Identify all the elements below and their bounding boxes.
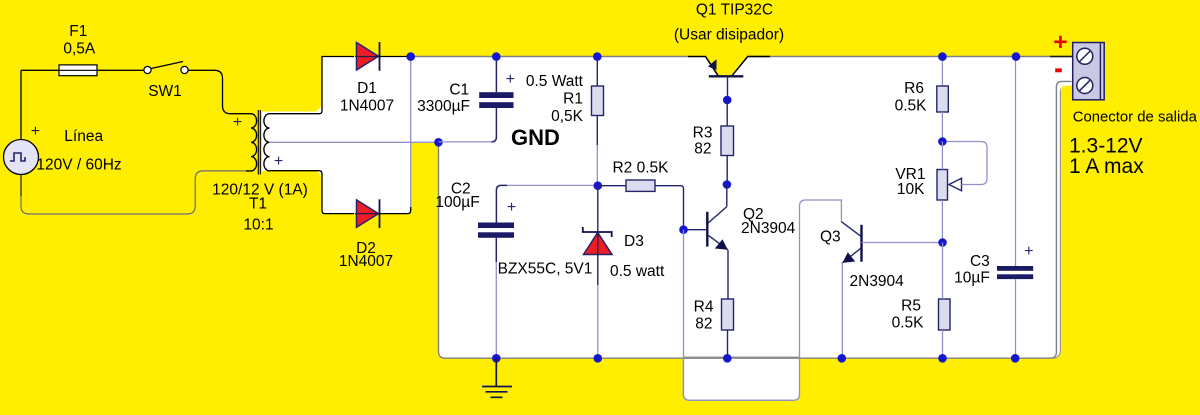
svg-text:0,5K: 0,5K [551, 108, 584, 125]
svg-text:GND: GND [511, 125, 560, 150]
svg-text:1 A max: 1 A max [1069, 155, 1144, 178]
resistor R3 [726, 100, 728, 126]
svg-text:3300µF: 3300µF [417, 98, 470, 115]
svg-text:(Usar disipador): (Usar disipador) [674, 27, 784, 44]
AC source waveform symbol [10, 153, 25, 161]
node: Q3 emitter on rail [838, 354, 847, 363]
svg-text:1N4007: 1N4007 [339, 253, 393, 270]
svg-text:+: + [507, 199, 516, 216]
svg-text:R4: R4 [694, 299, 714, 316]
background panel: D2 pocket [322, 142, 411, 213]
svg-text:1N4007: 1N4007 [340, 98, 394, 115]
node: C1 top on rail [492, 52, 501, 61]
node: center tap / ground net [434, 138, 443, 147]
wire: top positive rail (gray) [411, 56, 1072, 58]
background panel: bottom bulge (Q3 collector detour) [683, 357, 799, 400]
switch SW1 [144, 66, 151, 73]
svg-text:2N3904: 2N3904 [741, 220, 796, 237]
svg-text:R6: R6 [904, 80, 924, 97]
wire: bottom ground rail (gray) [439, 81, 1072, 358]
node: R6 top on rail [938, 52, 947, 61]
svg-text:R5: R5 [901, 298, 921, 315]
svg-text:+: + [31, 123, 40, 140]
background panel: connector notch [1059, 57, 1073, 86]
AC source V1 circle [4, 140, 39, 175]
svg-text:R1: R1 [563, 90, 583, 107]
svg-text:Conector de salida: Conector de salida [1073, 110, 1198, 126]
capacitor C2 [496, 185, 507, 222]
svg-text:D3: D3 [624, 233, 644, 250]
resistor R2 [598, 185, 626, 187]
node: R4 bottom on rail [723, 354, 732, 363]
svg-text:+: + [274, 153, 283, 170]
resistor R1 [596, 57, 598, 87]
label minus terminal [1055, 68, 1062, 72]
fuse F1 [59, 65, 97, 76]
transistor Q1 (TIP32C PNP) [688, 57, 770, 77]
svg-text:10K: 10K [897, 181, 925, 198]
transformer T1 secondary winding [264, 114, 273, 171]
wire: D2 cathode to riser [380, 207, 411, 214]
svg-text:0.5 Watt: 0.5 Watt [526, 73, 584, 90]
resistor R4 [722, 299, 734, 330]
wire: rail stub into connector [1050, 56, 1073, 58]
svg-text:+: + [506, 71, 515, 88]
svg-text:+: + [1053, 29, 1067, 56]
potentiometer VR1 [937, 170, 948, 201]
ground symbol [482, 358, 512, 397]
background fillet near D2 wire corner [316, 171, 323, 179]
transistor Q2 (2N3904 NPN) [726, 185, 728, 207]
wire: AC source top to fuse [21, 70, 59, 139]
node: Q2 base junction [679, 225, 688, 234]
node: R1/R2/D3 junction [594, 181, 603, 190]
svg-text:120V / 60Hz: 120V / 60Hz [36, 157, 121, 174]
svg-text:0.5K: 0.5K [892, 315, 925, 332]
transformer T1 core [257, 110, 259, 175]
svg-text:10:1: 10:1 [243, 216, 273, 233]
svg-text:C1: C1 [449, 82, 469, 99]
svg-text:0.5 watt: 0.5 watt [610, 263, 665, 280]
zener diode D3 [597, 186, 599, 232]
background fillet near D1 wire corner [316, 104, 323, 112]
background fillet below connector notch [1060, 86, 1066, 92]
wire: Q3 base to divider [862, 242, 943, 244]
wire: center tap to ground node [270, 141, 439, 143]
background panel border: central right edge [1052, 88, 1060, 358]
VR1 wiper arrow [949, 178, 962, 190]
transformer T1 primary winding [246, 114, 257, 171]
diode D2 [357, 200, 379, 228]
svg-text:82: 82 [694, 141, 711, 158]
capacitor C3 [1015, 57, 1017, 267]
wire: switch to transformer primary top [188, 70, 246, 113]
wire: Q2 base to Q3 collector detour [684, 200, 842, 400]
svg-text:0.5K: 0.5K [895, 98, 928, 115]
node: Q3 base / divider junction [938, 238, 947, 247]
svg-text:+: + [1024, 243, 1033, 260]
svg-text:T1: T1 [249, 196, 267, 213]
background panel: central area [439, 57, 1061, 359]
svg-text:82: 82 [695, 316, 712, 333]
background panel: transformer secondary pocket [262, 112, 323, 172]
node: GND symbol junction [492, 354, 501, 363]
wire: fuse to switch [97, 69, 144, 71]
node: R5 bottom on rail [938, 354, 947, 363]
wire: secondary bottom to D2 [273, 171, 354, 214]
svg-text:Q3: Q3 [820, 229, 841, 246]
svg-text:R3: R3 [693, 125, 713, 142]
svg-text:+: + [233, 114, 242, 131]
svg-text:SW1: SW1 [148, 83, 182, 100]
svg-text:F1: F1 [69, 23, 87, 40]
transistor Q3 (2N3904 NPN, mirrored) [841, 222, 861, 237]
wire: AC source bottom loop to transformer primary bottom [21, 171, 246, 214]
node: D1/D2 junction on rail [406, 52, 415, 61]
connector J1 (output terminal block) [1073, 43, 1105, 100]
svg-text:C3: C3 [970, 253, 990, 270]
diode D1 [357, 43, 379, 71]
node: C3 top on rail [1012, 52, 1021, 61]
node: C3 bottom on rail [1011, 354, 1020, 363]
capacitor C1 [495, 57, 497, 93]
svg-text:2N3904: 2N3904 [850, 273, 905, 290]
node: Q1 base junction [723, 96, 732, 105]
resistor R6 [941, 57, 943, 87]
node: R3 bottom / Q2 collector [723, 180, 732, 189]
svg-text:D1: D1 [357, 80, 377, 97]
resistor R5 [939, 299, 951, 330]
wire: VR1 wiper loop [947, 142, 987, 185]
background panel: D1 pocket [322, 57, 441, 143]
wire: secondary top to D1 [273, 57, 354, 114]
node: D3 bottom on rail [594, 354, 603, 363]
svg-text:BZX55C, 5V1: BZX55C, 5V1 [498, 261, 593, 278]
wire: D1 cathode to node [380, 56, 408, 58]
svg-text:R2 0.5K: R2 0.5K [612, 160, 669, 177]
wire: Q2 base [684, 229, 708, 231]
svg-text:Q1 TIP32C: Q1 TIP32C [696, 2, 773, 19]
svg-text:10µF: 10µF [954, 270, 990, 287]
node: R1 top on rail [593, 52, 602, 61]
background: yellow pocket above Q1 [705, 56, 748, 77]
svg-text:Línea: Línea [64, 128, 103, 145]
node: R6/VR1 junction [938, 137, 947, 146]
svg-text:100µF: 100µF [435, 194, 479, 211]
svg-text:0,5A: 0,5A [63, 41, 96, 58]
